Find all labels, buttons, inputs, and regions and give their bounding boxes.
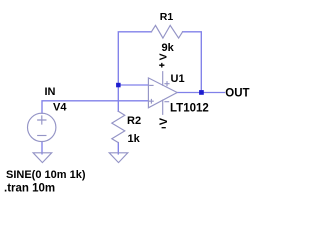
svg-text:V: V	[158, 117, 170, 125]
svg-text:.tran 10m: .tran 10m	[4, 183, 55, 195]
svg-text:SINE(0 10m 1k): SINE(0 10m 1k)	[6, 169, 86, 181]
svg-text:U1: U1	[171, 73, 185, 85]
svg-text:R2: R2	[127, 115, 141, 127]
svg-text:9k: 9k	[162, 42, 175, 54]
svg-text:OUT: OUT	[225, 88, 249, 100]
svg-text:1k: 1k	[128, 133, 141, 145]
svg-text:LT1012: LT1012	[170, 103, 209, 115]
svg-text:V: V	[158, 53, 170, 60]
svg-text:IN: IN	[45, 86, 56, 98]
svg-text:R1: R1	[160, 11, 174, 23]
svg-text:V4: V4	[53, 101, 67, 113]
